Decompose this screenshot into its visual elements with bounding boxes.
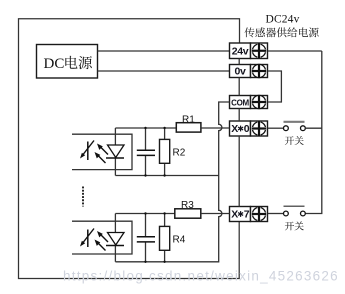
top rail wire circuit 1 (115, 127, 176, 129)
photo receiver bar symbol OC2 (87, 230, 89, 248)
label 开关 for SW0 (285, 136, 294, 145)
capacitor C2 leads (145, 214, 147, 237)
svg-text:COM: COM (231, 99, 249, 108)
bottom rail wire circuit 1 (115, 175, 218, 177)
wire R3 to X*7 (201, 213, 230, 215)
resistor R4 leads (164, 214, 166, 227)
svg-text:https://blog.csdn.net/weixin_4: https://blog.csdn.net/weixin_45263626 (63, 268, 339, 283)
arrow through bar OC1 (82, 141, 95, 157)
svg-text:X: X (231, 123, 238, 135)
light arrows OC2 (100, 234, 108, 242)
arrow through bar OC2 (82, 229, 95, 245)
terminal X*0 with screw (230, 121, 251, 136)
capacitor C2 plates (137, 236, 155, 238)
wire PLC enclosure top/left/bottom boundary (19, 19, 240, 279)
terminal 24v with screw (230, 43, 251, 59)
wire right bus (sensor supply to switches) (305, 51, 322, 214)
switch SW7 at X*7 (268, 213, 284, 215)
optocoupler OC1 package outline and external input wires (72, 134, 132, 169)
photo receiver bar symbol OC1 (87, 142, 89, 161)
optocoupler OC2 package outline and external input wires (72, 221, 132, 254)
svg-text:7: 7 (244, 209, 250, 221)
switch SW0 at X*0 (268, 127, 284, 129)
wire SW0 to right bus (305, 127, 322, 129)
light arrows OC1 (100, 146, 108, 154)
svg-text:0: 0 (244, 123, 250, 135)
LED diode OC2 (114, 214, 116, 262)
svg-text:X: X (231, 209, 238, 221)
resistor R3 body (175, 209, 201, 218)
wire COM to internal common rail (hops over input wires) (115, 102, 229, 262)
top rail wire circuit 2 (115, 213, 174, 215)
svg-text:R1: R1 (182, 115, 195, 126)
resistor R2 leads (164, 128, 166, 139)
terminal 0v with screw (230, 65, 251, 78)
terminal COM with screw (230, 96, 251, 109)
terminal X*7 with screw (230, 207, 251, 222)
wire terminal strip links (238, 59, 240, 65)
resistor R2 body (160, 139, 170, 163)
DC power supply box DC电源 (37, 45, 98, 79)
svg-text:DC24v: DC24v (266, 13, 300, 25)
wire R1 to X*0 (201, 127, 230, 129)
wire DC+ to 24v terminal (98, 50, 230, 52)
resistor R1 body (176, 123, 201, 132)
junction dots circuit 1 (144, 127, 146, 129)
capacitor C1 plates (137, 149, 155, 151)
label 传感器供给电源 (244, 27, 254, 37)
svg-text:0v: 0v (234, 66, 246, 78)
label 开关 for SW7 (285, 222, 294, 231)
wire DC- to 0v terminal (98, 70, 230, 72)
capacitor C1 leads (145, 128, 147, 150)
svg-text:DC: DC (44, 56, 65, 72)
svg-text:R3: R3 (181, 200, 194, 211)
svg-text:R4: R4 (173, 235, 186, 246)
svg-text:R2: R2 (173, 148, 186, 159)
resistor R4 body (160, 226, 170, 250)
wire 24v screw to right bus (268, 50, 322, 52)
wire 0v to COM jumper (268, 71, 282, 102)
svg-text:24v: 24v (232, 45, 249, 57)
LED diode OC1 (triangle + bar on vertical wire) (114, 128, 116, 176)
continuation dashed line (82, 187, 84, 207)
junction dots circuit 2 (144, 212, 146, 214)
